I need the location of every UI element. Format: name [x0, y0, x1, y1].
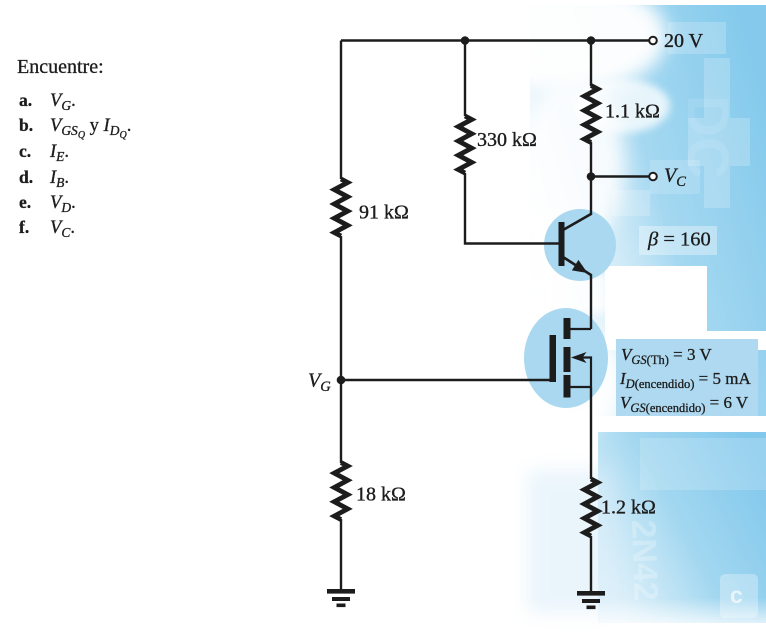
svg-text:f.: f. — [19, 217, 29, 237]
base bar — [559, 222, 565, 266]
svg-text:Encuentre:: Encuentre: — [17, 56, 104, 78]
svg-text:IB.: IB. — [49, 168, 69, 190]
wire emitter/drain vertical — [590, 274, 592, 329]
svg-text:20 V: 20 V — [664, 30, 704, 52]
node junction top 1.1k — [587, 36, 596, 45]
scan watermark: blue panel bottom-right — [598, 432, 766, 623]
scan watermark: white blob along 1.1k resistor — [520, 80, 624, 250]
resistor 1.2 kOhm — [584, 479, 597, 536]
transistor Q2 MOSFET — [550, 318, 592, 398]
svg-text:b.: b. — [19, 115, 33, 135]
scan watermark: beta lighter band — [639, 226, 717, 255]
scan watermark: white rect below beta — [605, 266, 707, 332]
svg-text:330 kΩ: 330 kΩ — [477, 129, 537, 151]
svg-text:IE.: IE. — [49, 142, 69, 164]
scan watermark: white blob behind 1.1k label — [574, 79, 670, 133]
wire gate from VG — [341, 379, 550, 381]
channel segment top — [564, 318, 571, 339]
scan watermark: ghost rect behind Vc — [650, 160, 700, 194]
wire top rail — [341, 39, 649, 41]
ground left — [327, 589, 355, 607]
scan watermark: ghost rounded square c — [720, 574, 758, 618]
svg-text:1.2 kΩ: 1.2 kΩ — [601, 497, 656, 519]
svg-text:91 kΩ: 91 kΩ — [359, 202, 409, 224]
gate bar — [550, 335, 557, 382]
wire Vc tap — [591, 175, 649, 177]
terminal 20V — [649, 37, 657, 45]
svg-text:DC: DC — [675, 95, 740, 179]
wire source vertical — [590, 387, 592, 479]
wire 1.1k branch upper — [590, 41, 592, 87]
svg-text:VGSQ y IDQ.: VGSQ y IDQ. — [50, 116, 131, 141]
info box MOSFET parameters — [616, 339, 758, 416]
highlight circle BJT — [544, 209, 616, 281]
svg-text:VD.: VD. — [50, 193, 76, 215]
scan watermark: ghost rects upper right — [612, 22, 750, 216]
wire left branch upper — [340, 41, 342, 180]
scan watermark: white blob left of BJT — [470, 200, 566, 390]
svg-text:2N42: 2N42 — [624, 519, 665, 602]
svg-text:a.: a. — [19, 90, 32, 110]
wire 1.2k to ground — [590, 536, 592, 593]
ground right — [577, 591, 605, 609]
collector diagonal — [563, 214, 591, 230]
svg-text:β = 160: β = 160 — [647, 229, 711, 251]
emitter arrowhead — [572, 260, 588, 273]
channel segment bottom — [564, 375, 571, 398]
highlight ellipse MOSFET — [524, 308, 608, 408]
substrate arrow line — [578, 358, 591, 388]
svg-text:e.: e. — [19, 192, 31, 212]
node VG — [337, 376, 346, 385]
svg-text:1.1 kΩ: 1.1 kΩ — [605, 101, 660, 123]
wire 330k branch upper — [464, 41, 466, 117]
scan watermark: white patch between transistors — [535, 275, 607, 313]
drain connection — [571, 328, 592, 330]
source connection — [571, 386, 592, 388]
channel segment middle — [564, 347, 571, 372]
node Vc — [587, 172, 596, 181]
terminal Vc — [649, 173, 657, 181]
wire left branch mid — [340, 236, 342, 463]
resistor 330 kOhm — [458, 116, 471, 173]
svg-text:d.: d. — [19, 167, 33, 187]
resistor 91 kOhm — [334, 179, 347, 236]
scan watermark: white strip above info box — [605, 331, 766, 350]
resistor 18 kOhm — [334, 463, 347, 520]
resistor 1.1 kOhm — [584, 86, 597, 143]
svg-text:VG.: VG. — [50, 91, 76, 113]
svg-text:VG: VG — [308, 370, 331, 396]
scan watermark: faint wash bottom-left of panel — [528, 470, 613, 620]
substrate arrowhead — [571, 352, 587, 363]
problem statement text block — [17, 56, 131, 240]
svg-text:VC.: VC. — [50, 218, 75, 240]
wire 330k branch lower + base wire — [465, 173, 559, 244]
scan watermark: white blob around MOSFET zone — [498, 325, 622, 435]
scan watermark: bottom fade — [500, 598, 766, 634]
svg-text:18 kΩ: 18 kΩ — [356, 484, 406, 506]
scan watermark: white blob around 20V — [475, 0, 667, 92]
scan watermark: white strip below info box — [450, 416, 766, 432]
wire left branch lower — [340, 519, 342, 590]
svg-text:c.: c. — [19, 141, 31, 161]
transistor Q1 BJT — [559, 214, 592, 275]
emitter diagonal — [563, 257, 591, 275]
scan watermark: blue panel top-right — [530, 5, 766, 417]
scan watermark: ghost rects lower right — [640, 438, 766, 490]
wire collector vertical — [590, 142, 592, 215]
node junction top 330k — [461, 36, 470, 45]
